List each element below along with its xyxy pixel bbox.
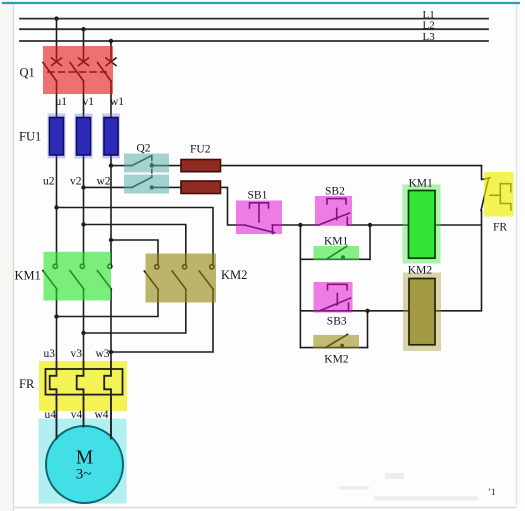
node KM1 aux right junction [368,223,372,227]
wire KM1 aux bottom rail [300,258,370,260]
pushbutton SB3 actuator cap [328,284,348,289]
svg-text:w3: w3 [95,348,109,360]
pushbutton SB2 blade [319,213,350,225]
switch Q2 lower fixed contact dot [150,185,154,189]
highlight box over disconnect switch Q1 [43,46,113,94]
wire KM1 contact 1 to FR heater u [56,289,58,369]
svg-text:v2: v2 [70,176,82,188]
switch Q1 pole 2 blade [70,63,84,82]
node w3 junction [109,350,113,354]
relay contact FR normally-closed blade [481,178,489,211]
svg-text:Q1: Q1 [20,66,35,80]
wire KM2 pole 2 bottom to node v3 [84,290,186,334]
node v2 branch junction to KM2 pole 2 [81,222,85,226]
highlight box over thermal relay FR heaters [39,361,127,411]
node SB3 rail junction to KM2 aux [365,309,369,313]
svg-text:KM2: KM2 [408,264,433,276]
wire KM1 contact 2 to FR heater v [83,289,85,369]
contactor KM1 main contact 3 fixed circle [108,264,112,268]
contactor KM1 main contact 3 blade [97,271,111,290]
contactor KM1 main contact 2 blade [70,271,84,290]
highlight box over KM1 main contacts [44,252,112,301]
svg-text:u3: u3 [44,348,56,360]
fuse FU1 element 3 body [104,118,118,156]
highlight box over KM2 main contacts [146,254,217,303]
wire L3 drop to Q1 pole 3 [110,41,112,61]
pushbutton SB2 fixed contact tick [346,217,348,225]
switch Q2 lower blade [132,177,152,187]
page left margin column [0,0,13,511]
bus line L2 [20,28,488,30]
wire FR heater v to motor [83,395,85,427]
highlight box over breaker Q2 upper pole [124,154,169,173]
highlight box over pushbutton SB2 [315,196,352,226]
page border left gray line [13,4,15,511]
switch Q1 pole 3 contact cross [106,58,116,66]
relay FR thermal detector link [490,194,500,196]
wire L2 drop to Q1 pole 2 [83,29,85,61]
contactor KM2 main contact 2 fixed circle [183,265,187,269]
svg-text:M: M [76,448,93,469]
contact KM1 auxiliary fixed dot [341,255,345,259]
svg-text:KM1: KM1 [409,177,434,189]
wire Q2 upper pole to FU2 fuse 1 [152,165,181,167]
thermal relay FR heater u [50,362,57,399]
switch Q1 linkage dashed bar [48,71,106,73]
bus line L1 [20,18,488,20]
svg-text:v4: v4 [71,409,83,421]
pushbutton SB2 actuator stem [336,209,338,220]
wire KM2 pole 1 bottom to node u3 [57,290,159,317]
contactor KM2 main contact 3 fixed circle [210,265,214,269]
svg-text:L2: L2 [423,19,435,31]
svg-text:3~: 3~ [76,467,92,483]
relay FR thermal detector top arm [500,184,511,192]
wire SB3 branch left drop [299,225,301,348]
svg-text:FR: FR [493,222,507,234]
pushbutton SB3 actuator stem [336,294,338,306]
svg-text:SB3: SB3 [327,316,347,328]
svg-text:u1: u1 [56,96,68,108]
contactor KM1 main contact 1 fixed circle [53,264,57,268]
fuse FU2 element 2 body [181,181,221,194]
node v2 junction to Q2 lower pole [81,185,85,189]
pushbutton SB3 blade [320,298,351,311]
switch Q2 linkage dashed bar [151,157,153,177]
wire v2 branch to KM2 pole 2 top [84,225,186,265]
node u2 branch junction to KM2 pole 3 [54,205,58,209]
glow behind KM1 coil [403,185,441,264]
wire u2 branch to KM2 pole 3 top [57,208,214,265]
contactor KM2 main contact 2 blade [172,271,186,290]
highlight box over pushbutton SB1 [236,201,282,235]
bus line L3 [20,40,488,42]
node u2 junction to Q2 upper pole [109,163,113,167]
svg-text:FU2: FU2 [190,143,211,155]
wire w2 to Q2 upper pole [111,165,132,167]
svg-text:KM1: KM1 [15,268,41,282]
highlight box over FR trip contact [484,172,514,217]
switch Q1 pole 1 blade [43,63,57,82]
svg-text:SB2: SB2 [325,185,345,197]
svg-text:FU1: FU1 [19,130,41,144]
node SB1-SB2 rail junction to SB3 branch [298,223,302,227]
contact KM2 auxiliary fixed dot [340,344,344,348]
switch Q1 pole 2 contact cross [79,58,89,66]
svg-text:w1: w1 [110,96,124,108]
wire KM2 aux bottom rail [300,347,367,349]
coil KM2 body [409,279,435,345]
contactor KM2 main contact 1 blade [144,271,158,290]
page border bottom gray line [13,507,517,509]
contact KM2 auxiliary blade [326,334,348,347]
wire SB1 to SB2 rail [273,224,319,226]
svg-text:L3: L3 [423,31,436,43]
relay FR thermal detector bottom arm [500,204,511,211]
thermal relay FR outer box [46,369,123,395]
pushbutton SB1 blade [246,225,275,232]
svg-text:v1: v1 [83,96,95,108]
pushbutton SB1 actuator cap [250,203,269,208]
highlight box over pushbutton SB3 [314,282,353,313]
switch Q2 upper fixed contact dot [150,163,154,167]
fuse FU1 element 1 body [50,118,64,156]
highlight box over breaker Q2 lower pole [124,175,169,194]
node u3 junction [54,314,58,318]
node v3 junction [81,331,85,335]
wire KM2 pole 3 bottom to node w3 [111,290,213,353]
node L1 tap junction [54,16,58,20]
svg-text:w4: w4 [94,409,108,421]
wire Q2 lower pole to FU2 fuse 2 [152,186,181,188]
highlight box over KM1 auxiliary contact [314,246,360,260]
wire Q1 pole 3 to FU1 fuse 3 and on to KM1 contact 3 [110,81,112,264]
contactor KM2 main contact 1 fixed circle [155,265,159,269]
highlight box over motor M [39,419,127,504]
glow behind FU1 fuse 2 [75,114,93,159]
wire w2 branch to KM2 pole 1 top [111,240,158,265]
wire u4 lead into motor [56,399,58,439]
svg-text:SB1: SB1 [248,190,268,202]
fuse FU1 element 2 body [77,118,91,156]
svg-text:’1: ’1 [488,487,496,497]
pushbutton SB2 actuator cap [327,199,346,204]
pushbutton SB3 fixed contact tick [348,303,350,311]
glow behind FU1 fuse 3 [102,114,120,159]
svg-text:Q2: Q2 [137,142,151,154]
thermal relay FR heater w [104,362,111,399]
glow behind FU1 fuse 1 [48,114,66,159]
wire KM2 coil to FR vertical bottom corner [435,211,482,311]
node L2 tap junction [81,27,85,31]
wire KM1 contact 3 to FR heater w [110,289,112,369]
coil KM1 body [409,191,436,259]
contactor KM1 main contact 2 fixed circle [80,264,84,268]
pushbutton SB1 actuator stem [258,204,260,223]
svg-text:KM2: KM2 [324,354,349,366]
wire FR heater u to motor [56,395,58,439]
relay FR thermal detector vertical [499,184,501,204]
svg-text:KM1: KM1 [324,236,349,248]
svg-text:v3: v3 [71,348,83,360]
wire SB3 rail to KM2 coil [300,310,409,312]
switch Q1 pole 3 blade [98,63,112,82]
wire SB2 to KM1 coil [347,224,408,226]
page border right gray line [516,4,518,505]
svg-text:w2: w2 [96,176,110,188]
glow behind KM2 coil [403,273,441,352]
fuse FU2 element 1 body [181,160,221,172]
wire Q1 pole 2 to FU1 fuse 2 and on to KM1 contact 2 [83,81,85,264]
watermark faint marks [339,473,478,501]
wire Q1 pole 1 to FU1 fuse 1 and on to KM1 contact 1 [56,81,58,264]
svg-text:u4: u4 [45,409,57,421]
thermal relay FR heater v [77,362,84,399]
wire FR heater w to motor [110,395,112,439]
wire control rail right corner down to FR contact [481,166,483,180]
relay contact FR blade tick [483,178,490,180]
wire w4 lead into motor [110,399,112,439]
pushbutton SB1 fixed contact tick [272,225,274,234]
wire KM1 aux right drop [369,225,371,259]
wire v4 lead into motor [83,399,85,427]
wire FU2 fuse 2 to SB1 tap corner [181,187,246,225]
page border teal top line [2,2,520,4]
switch Q1 pole 1 contact cross [52,58,62,66]
svg-text:u2: u2 [43,176,55,188]
node w2 branch junction to KM2 pole 1 [109,238,113,242]
motor M body circle [46,426,123,503]
highlight box over KM2 auxiliary contact [313,335,359,348]
wire L1 drop to Q1 pole 1 [56,19,58,61]
svg-text:KM2: KM2 [221,268,247,282]
contactor KM2 main contact 3 blade [199,271,213,290]
wire KM1 coil to FR vertical [435,224,482,226]
wire v2 to Q2 lower pole [84,186,133,188]
contact KM1 auxiliary blade [326,246,347,259]
switch Q2 upper blade [132,156,152,166]
node L3 tap junction [109,39,113,43]
wire KM2 aux right drop [367,311,369,348]
contactor KM1 main contact 1 blade [43,271,57,290]
svg-text:FR: FR [19,377,35,391]
wire FU2 fuse 1 to control rail right end [181,165,482,167]
